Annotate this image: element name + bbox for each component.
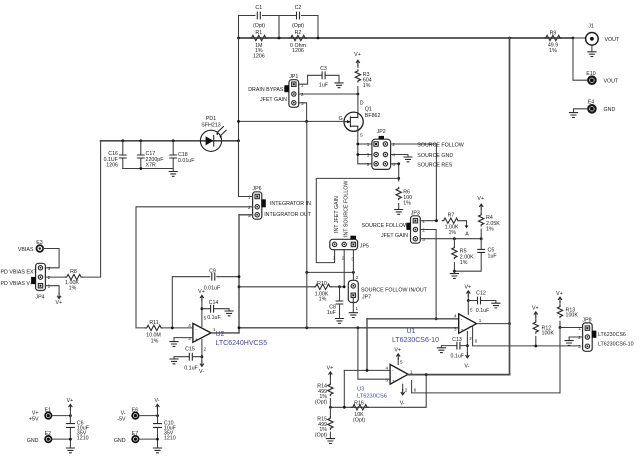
svg-text:2: 2 — [301, 92, 304, 97]
wire: JP5 pin2 down to R10 line — [343, 250, 345, 287]
svg-text:V+: V+ — [477, 196, 484, 202]
svg-text:JFET GAIN: JFET GAIN — [381, 233, 408, 239]
svg-text:1%: 1% — [363, 83, 371, 89]
svg-text:2: 2 — [469, 336, 472, 341]
svg-text:R1: R1 — [255, 30, 262, 36]
svg-text:INT JFET GAIN: INT JFET GAIN — [334, 196, 340, 233]
svg-text:E10: E10 — [586, 71, 595, 77]
wire: gate net horizontal to JP5 pin3 — [307, 271, 354, 273]
svg-text:E1: E1 — [45, 408, 52, 414]
svg-text:3: 3 — [454, 327, 457, 332]
resistor R10 — [239, 286, 344, 288]
power V+ at JP4 pin1 (down arrow) — [57, 293, 61, 299]
ground at bypass caps — [169, 172, 178, 177]
svg-text:GND: GND — [27, 438, 39, 444]
svg-text:V+: V+ — [464, 285, 471, 291]
svg-text:C13: C13 — [452, 337, 462, 343]
svg-text:U3: U3 — [357, 387, 364, 393]
svg-text:4: 4 — [385, 365, 388, 370]
svg-text:1%: 1% — [403, 201, 411, 207]
svg-text:V+: V+ — [354, 52, 361, 58]
ground at supply entry V+ — [66, 448, 75, 453]
svg-text:2: 2 — [422, 228, 425, 233]
wire: JP2 pin2 source follow net to JP3 pin1 — [391, 144, 437, 221]
wire: U3 inverting to divider junction — [343, 370, 345, 407]
svg-text:0.01uF: 0.01uF — [204, 286, 221, 292]
svg-text:JP6: JP6 — [252, 186, 261, 192]
svg-text:SOURCE FOLLOW IN/OUT: SOURCE FOLLOW IN/OUT — [361, 287, 428, 293]
resistor R2 — [289, 35, 307, 40]
svg-text:V+: V+ — [556, 291, 563, 297]
svg-text:6: 6 — [414, 387, 417, 392]
ground at C3 — [334, 83, 343, 88]
svg-text:C9: C9 — [209, 269, 216, 275]
ground at C15 — [169, 359, 178, 364]
ground at supply entry V- — [153, 448, 162, 453]
svg-text:100K: 100K — [566, 313, 579, 319]
wire: bypass caps bottom rail — [123, 169, 173, 172]
svg-text:JP2: JP2 — [377, 129, 386, 135]
wire: U1 inverting input line from U3 link — [367, 318, 459, 320]
svg-text:V+: V+ — [394, 348, 401, 354]
power V+ arrow at supply entry — [69, 409, 71, 416]
power V- of U3 — [402, 384, 404, 390]
svg-text:R8: R8 — [70, 269, 77, 275]
svg-text:C14: C14 — [209, 300, 219, 306]
svg-text:INTEGRATOR OUT: INTEGRATOR OUT — [264, 212, 312, 218]
wire: link vertical to U3 inverting input — [366, 319, 368, 371]
power V- arrow at supply entry — [157, 409, 159, 416]
turret E1 V+ input — [44, 412, 52, 420]
svg-text:JP5: JP5 — [360, 244, 369, 250]
wire: left drop from R1 junction down to photodiode line — [238, 38, 240, 197]
svg-text:JP4: JP4 — [35, 295, 44, 301]
op-amp U1 LT6230CS6-10 — [459, 314, 477, 333]
wire: JP4 pin2 to R8 — [45, 276, 64, 278]
capacitor C17 — [140, 141, 142, 169]
capacitor C10 — [157, 416, 159, 440]
svg-text:1210: 1210 — [77, 435, 89, 441]
wire: U3 inverting input line — [344, 369, 390, 371]
power V+ above R3 — [356, 60, 360, 66]
resistor R9 — [544, 35, 562, 40]
svg-text:Q1: Q1 — [365, 107, 372, 113]
op-amp U2 LTC6240HVCS5 — [193, 323, 211, 342]
capacitor C18 — [172, 141, 174, 169]
header JP2 source select 2x3 — [372, 139, 391, 169]
ground at JP2 pin4 — [403, 157, 412, 162]
resistor R8 — [65, 274, 83, 279]
power V+ above R4 — [479, 204, 483, 210]
power V+ above R13 — [558, 297, 562, 303]
wire: E7 to C10 bottom — [140, 439, 158, 447]
svg-text:100K: 100K — [542, 331, 555, 337]
wire: JP3 pin3 feedback row — [420, 238, 481, 240]
resistor R3 — [357, 66, 359, 94]
svg-text:SOURCE GND: SOURCE GND — [417, 153, 453, 159]
ground at R15 — [326, 439, 335, 444]
wire: U1 feedback pin stub to JP8 row — [473, 326, 580, 346]
svg-text:SOURCE RES: SOURCE RES — [417, 162, 452, 168]
photodiode line: bias rail — [101, 140, 239, 142]
wire: U3 output to output net — [408, 374, 509, 376]
svg-text:SFH213: SFH213 — [201, 123, 220, 129]
svg-text:V+: V+ — [327, 366, 334, 372]
svg-text:+5V: +5V — [29, 417, 39, 423]
junction dots on photodiode rail — [121, 139, 124, 142]
svg-text:R7: R7 — [448, 212, 455, 218]
svg-text:SOURCE FOLLOW: SOURCE FOLLOW — [361, 223, 408, 229]
ground at JP8 pin2 — [565, 341, 574, 346]
svg-text:(Opt): (Opt) — [292, 23, 304, 29]
wire: JFET gate net vertical — [306, 121, 308, 272]
power V+ above R14 — [329, 372, 333, 378]
turret E10 VOUT — [588, 77, 595, 84]
resistor R14 — [329, 378, 331, 408]
header JP4 PD bias select — [36, 263, 46, 290]
power V+ above R12 — [534, 312, 538, 318]
svg-text:5: 5 — [367, 162, 370, 167]
resistor R11 — [145, 325, 163, 330]
svg-text:5: 5 — [204, 316, 207, 321]
turret E4 GND — [588, 105, 595, 112]
svg-text:0.1uF: 0.1uF — [207, 315, 221, 321]
connector J1 BNC VOUT — [586, 33, 599, 46]
svg-text:V+: V+ — [532, 306, 539, 312]
svg-text:1uF: 1uF — [319, 83, 329, 89]
wire: R8 up to photodiode bias rail — [83, 141, 100, 277]
svg-text:5: 5 — [470, 308, 473, 313]
svg-text:V-: V- — [400, 401, 405, 407]
header JP8 gain select — [583, 323, 593, 351]
svg-text:2: 2 — [248, 205, 251, 210]
svg-text:R2: R2 — [295, 30, 302, 36]
wire: JP7 pin1 to ground — [352, 298, 354, 313]
svg-text:2: 2 — [405, 387, 408, 392]
svg-text:4: 4 — [188, 323, 191, 328]
svg-text:1%: 1% — [460, 260, 468, 266]
svg-text:PD VBIAS V+: PD VBIAS V+ — [1, 281, 34, 287]
svg-text:2: 2 — [392, 142, 395, 147]
svg-text:3: 3 — [248, 213, 251, 218]
svg-text:S: S — [360, 133, 363, 138]
svg-text:(Opt): (Opt) — [253, 23, 265, 29]
capacitor C5 — [454, 239, 481, 272]
capacitor C3 — [322, 71, 325, 79]
node D junction — [357, 93, 360, 96]
svg-text:C15: C15 — [185, 346, 195, 352]
svg-text:BF862: BF862 — [365, 113, 381, 119]
capacitor C16 — [122, 141, 124, 169]
svg-text:PD VBIAS EXT: PD VBIAS EXT — [1, 270, 38, 276]
svg-text:R10: R10 — [317, 281, 327, 287]
svg-text:1210: 1210 — [164, 435, 176, 441]
svg-text:U1: U1 — [407, 328, 416, 335]
svg-text:4: 4 — [454, 314, 457, 319]
wire: Q1 source to JP2 pin1 column — [358, 131, 376, 164]
wire: JP3 pin1 to R7 — [420, 220, 436, 222]
svg-text:1206: 1206 — [106, 163, 118, 169]
wire: J1 stub — [573, 37, 586, 39]
svg-text:LT6230CS6-10: LT6230CS6-10 — [392, 337, 439, 344]
wire: JP1 pin3 down to gate line — [299, 103, 307, 122]
svg-text:1206: 1206 — [292, 48, 304, 54]
svg-text:U2: U2 — [216, 331, 225, 338]
svg-text:4: 4 — [392, 153, 395, 158]
svg-text:3: 3 — [422, 237, 425, 242]
svg-text:3: 3 — [48, 266, 51, 271]
svg-text:1: 1 — [301, 82, 304, 87]
wire: C3 to ground — [325, 75, 339, 82]
svg-text:V-: V- — [154, 398, 159, 404]
svg-text:C3: C3 — [320, 66, 327, 72]
ground at C12 — [491, 303, 500, 308]
svg-text:1: 1 — [479, 318, 482, 323]
svg-text:0.1uF: 0.1uF — [476, 308, 490, 314]
header JP7 source follow in/out — [348, 280, 358, 302]
svg-text:JP1: JP1 — [289, 74, 298, 80]
capacitor C6 — [69, 416, 71, 440]
wire: U2 non-inverting input to ground — [174, 338, 193, 342]
svg-text:VOUT: VOUT — [604, 79, 619, 85]
resistor R15 — [329, 407, 331, 438]
svg-text:3: 3 — [367, 153, 370, 158]
ground at R5/C5 — [453, 270, 456, 273]
capacitor C14 — [202, 309, 229, 311]
resistor R1 — [250, 35, 268, 40]
svg-text:C2: C2 — [295, 5, 302, 11]
svg-text:V-: V- — [199, 369, 204, 375]
wire: JP5 pin1 loop to source res line — [316, 178, 398, 262]
wire: E4 to ground — [574, 109, 588, 113]
svg-text:6: 6 — [475, 339, 478, 344]
wire: E6 to C10 node — [140, 415, 158, 417]
resistor R6 — [398, 178, 400, 209]
svg-text:3: 3 — [188, 336, 191, 341]
header JP3 source follow gain select — [411, 216, 421, 243]
power V- rail of U2 — [201, 339, 203, 361]
svg-text:E3: E3 — [36, 240, 43, 246]
turret E3 VBIAS — [37, 245, 44, 252]
photodiode PD1 SFH213 — [200, 130, 221, 151]
svg-text:C12: C12 — [476, 290, 486, 296]
resistor R5 — [453, 239, 455, 272]
svg-text:GND: GND — [114, 438, 126, 444]
svg-text:C1: C1 — [255, 5, 262, 11]
svg-text:E4: E4 — [588, 100, 595, 106]
svg-text:JP3: JP3 — [411, 210, 420, 216]
wire: U3 non-inverting from signal line — [358, 328, 390, 379]
wire: C1 bypass loop over R1 — [239, 16, 280, 39]
ground at JP7 — [349, 313, 358, 318]
wire: node D to Q1 drain — [357, 94, 359, 112]
svg-text:LT6230CS6-10: LT6230CS6-10 — [598, 342, 634, 348]
resistor R7 — [442, 218, 460, 223]
svg-text:1%: 1% — [319, 297, 327, 303]
svg-text:1uF: 1uF — [488, 253, 498, 259]
ground at C14 — [225, 311, 234, 316]
wire: top output rail from R1/R2 network to J1 — [239, 37, 574, 39]
header JP6 integrator — [253, 192, 262, 219]
svg-text:R16: R16 — [354, 401, 364, 407]
ground at C13 — [437, 348, 446, 353]
svg-text:1: 1 — [422, 219, 425, 224]
wire: R13 net down to U3 feedback row — [559, 328, 561, 393]
capacitor C8 — [339, 287, 341, 319]
svg-text:0.1uF: 0.1uF — [451, 354, 465, 360]
wire: output net vertical from top rail down to U1 output — [509, 38, 511, 324]
svg-text:V-: V- — [464, 364, 469, 370]
turret E7 GND input — [131, 435, 139, 443]
svg-text:1: 1 — [333, 255, 336, 260]
svg-text:1: 1 — [578, 326, 581, 331]
capacitor C15 — [174, 357, 202, 359]
svg-text:(Opt): (Opt) — [315, 399, 327, 405]
svg-text:JP8: JP8 — [582, 317, 591, 323]
svg-text:VBIAS: VBIAS — [18, 247, 34, 253]
wire: U1 output to output net — [477, 323, 510, 325]
svg-text:GND: GND — [604, 107, 616, 113]
capacitor C2 — [297, 12, 300, 20]
capacitor C9 integrator feedback — [172, 277, 239, 328]
resistor R4 — [480, 210, 482, 239]
wire: VOUT to turret E10 — [573, 38, 588, 80]
wire: U2 output to integrator out vertical — [211, 332, 239, 334]
ground at U2 +in — [169, 342, 178, 347]
svg-text:1%: 1% — [486, 227, 494, 233]
power V+ rail of U3 — [397, 359, 399, 365]
svg-text:JP7: JP7 — [362, 295, 371, 301]
svg-text:E7: E7 — [132, 431, 139, 437]
ground at E4 — [569, 113, 578, 118]
svg-text:1: 1 — [248, 195, 251, 200]
svg-text:V+: V+ — [55, 300, 62, 306]
wire: JP2 pin6 source res net — [391, 164, 399, 179]
wire: E3 to JP4 pin3 — [43, 249, 59, 268]
wire: gate net continues down to signal line — [306, 272, 308, 327]
svg-text:LTC6240HVCS5: LTC6240HVCS5 — [216, 340, 268, 347]
capacitor C1 — [257, 12, 260, 20]
wire: JP4 pin1 to V+ — [45, 286, 59, 293]
svg-text:1%: 1% — [549, 48, 557, 54]
ground at C8 — [335, 319, 344, 324]
svg-text:3: 3 — [385, 377, 388, 382]
svg-text:1%: 1% — [448, 230, 456, 236]
svg-text:+: + — [195, 337, 198, 342]
svg-text:+: + — [392, 378, 395, 383]
svg-text:VOUT: VOUT — [605, 37, 620, 43]
capacitor C13 — [441, 346, 467, 348]
svg-text:SOURCE FOLLOW: SOURCE FOLLOW — [417, 142, 464, 148]
power V+ rail of U1 — [467, 296, 469, 315]
power V- rail of U1 — [466, 332, 468, 353]
wire: JP6 pin2 integrator in loop to R11 — [136, 207, 253, 328]
wire: R13 junction to JP8 pin1 — [560, 327, 583, 329]
svg-text:1%: 1% — [151, 338, 159, 344]
wire: JP8 pin2 to ground — [569, 337, 583, 340]
wire: U3 feedback pin stub to R13 net — [412, 381, 560, 393]
header JP1 drain bypass — [289, 80, 299, 108]
svg-text:(Opt): (Opt) — [315, 432, 327, 438]
wire: U3 feedback loop via R16 — [330, 375, 426, 408]
op-amp U3 LT6230CS6 — [390, 364, 408, 384]
transistor Q1 BF862 JFET — [344, 112, 363, 131]
wire: JP1 pin1 to C3 — [299, 75, 322, 84]
ground at J1 — [591, 45, 593, 51]
wire: JP2 pin4 to ground — [391, 155, 408, 157]
turret E2 GND input — [44, 435, 52, 443]
wire: JP5 pin3 down to JP7 — [352, 250, 354, 284]
header JP5 integrator drive select — [330, 239, 358, 249]
svg-text:3: 3 — [578, 344, 581, 349]
svg-text:2: 2 — [204, 347, 207, 352]
svg-text:(Opt): (Opt) — [353, 417, 365, 423]
svg-text:V+: V+ — [198, 289, 205, 295]
ground at R6 — [394, 210, 403, 215]
svg-text:R9: R9 — [550, 31, 557, 37]
wire: JP1 pin2 to node D — [299, 93, 358, 95]
wire: JP3 pin2 to U1 inverting line — [420, 230, 436, 319]
svg-text:R11: R11 — [149, 320, 158, 326]
wire: JP6 pin3 integrator out vertical — [239, 215, 253, 333]
svg-text:1: 1 — [356, 306, 359, 311]
svg-text:5: 5 — [400, 360, 403, 365]
svg-text:INT SOURCE FOLLOW: INT SOURCE FOLLOW — [344, 181, 350, 237]
resistor R16 — [351, 405, 369, 410]
wire: E1 to C6 node — [52, 415, 70, 417]
svg-text:INTEGRATOR IN: INTEGRATOR IN — [270, 201, 311, 207]
svg-text:1206: 1206 — [253, 53, 265, 59]
svg-text:A: A — [465, 232, 469, 238]
resistor R13 — [559, 303, 561, 328]
wire: C2 bypass loop over R2 — [279, 16, 318, 39]
svg-text:1: 1 — [410, 369, 413, 374]
svg-text:2: 2 — [356, 275, 359, 280]
svg-text:+: + — [461, 327, 464, 332]
node A net stub — [460, 221, 466, 226]
svg-text:0.01uF: 0.01uF — [178, 158, 195, 164]
junction dots on top rail — [237, 37, 240, 40]
wire: gate line from photodiode node to Q1 — [239, 120, 345, 122]
svg-text:-5V: -5V — [117, 417, 126, 423]
wire: main signal line U2 output net to U1 +in — [239, 327, 459, 329]
svg-text:6: 6 — [392, 162, 395, 167]
svg-text:LT6230CS6: LT6230CS6 — [357, 394, 387, 400]
svg-text:PD1: PD1 — [206, 116, 216, 122]
svg-text:J1: J1 — [588, 24, 594, 30]
power V+ rail of U2 — [201, 300, 203, 327]
svg-text:1: 1 — [367, 142, 370, 147]
svg-text:E2: E2 — [45, 431, 52, 437]
svg-text:E6: E6 — [132, 408, 139, 414]
svg-text:JFET GAIN: JFET GAIN — [260, 97, 287, 103]
svg-text:LT6230CS6: LT6230CS6 — [598, 332, 626, 338]
svg-text:DRAIN BYPASS: DRAIN BYPASS — [248, 87, 287, 93]
svg-text:1%: 1% — [69, 286, 77, 292]
svg-text:V+: V+ — [67, 398, 74, 404]
turret E6 V- input — [131, 412, 139, 420]
svg-text:1uF: 1uF — [327, 310, 337, 316]
svg-text:3: 3 — [301, 101, 304, 106]
wire: JP6 pin1 from photodiode node — [239, 141, 253, 197]
wire: R11 to U2 inverting input — [163, 327, 193, 329]
capacitor C12 — [468, 301, 496, 303]
svg-text:X7R: X7R — [146, 163, 156, 169]
svg-text:0.1uF: 0.1uF — [184, 366, 198, 372]
resistor R12 — [535, 318, 537, 347]
wire: E2 to C6 bottom — [52, 439, 70, 447]
svg-text:D: D — [360, 101, 364, 107]
